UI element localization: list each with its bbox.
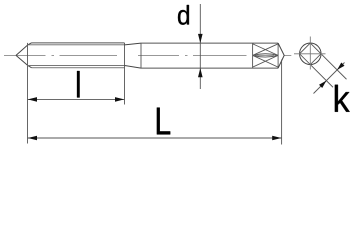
k extension line 1: [322, 55, 347, 80]
square flat edge top-left to right lens tip: [253, 44, 279, 56]
circle horizontal centerline: [294, 53, 326, 55]
square flat edge bottom-left to right lens tip: [253, 55, 279, 67]
square section end vertical: [277, 43, 279, 68]
label L: [157, 108, 170, 135]
end view circle: [300, 43, 322, 65]
square section lens: [253, 54, 279, 57]
thread end vertical + l right extension: [124, 43, 126, 105]
label k: [335, 85, 350, 112]
square section start vertical: [252, 43, 254, 68]
label d: [178, 5, 189, 25]
label l: [77, 71, 80, 98]
d dimension line: [199, 4, 201, 89]
l arrow right: [115, 97, 124, 102]
thread body inner bottom: [28, 65, 125, 67]
l dimension line: [28, 98, 125, 100]
thread body inner top: [28, 44, 125, 46]
k arrow lower (tip at P2, pointing up-right): [319, 81, 326, 88]
d arrow top (down): [198, 34, 203, 43]
circle vertical centerline: [309, 37, 311, 70]
cone base vertical + l,L extension line: [27, 43, 29, 144]
L arrow right: [272, 136, 281, 141]
thread body outer bottom: [32, 67, 125, 69]
end cone: [278, 43, 284, 68]
L dimension line: [28, 137, 282, 139]
axis centerline: [4, 54, 291, 56]
taper transition bottom: [125, 66, 142, 69]
d arrow bottom (up): [198, 68, 203, 77]
thread body outer top: [32, 42, 125, 44]
square flat edge bottom-right to left lens tip: [253, 55, 279, 67]
L right extension line: [281, 60, 283, 145]
k dimension line: [314, 63, 345, 94]
shank bottom: [141, 67, 278, 69]
square flat edge top-right to left lens tip: [253, 44, 279, 56]
taper transition top: [125, 43, 142, 45]
shank top: [141, 42, 278, 44]
l arrow left: [28, 97, 37, 102]
k extension line 2: [311, 65, 333, 87]
k arrow upper (tip at P1, pointing down-left): [337, 63, 344, 70]
tip cone: [16, 43, 32, 68]
end view square (diamond): [300, 43, 322, 65]
L arrow left: [28, 136, 37, 141]
taper end vertical: [140, 43, 142, 68]
